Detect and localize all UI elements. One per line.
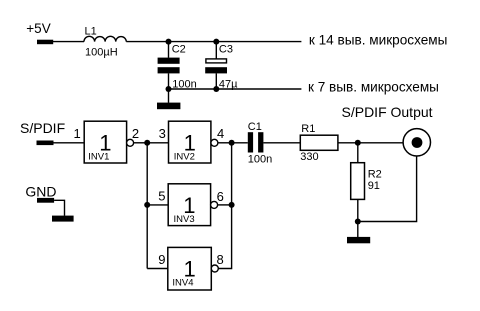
wire C3 top lead (215, 42, 217, 59)
wire left bus (node A down to INV4 in) (146, 143, 148, 269)
svg-text:C1: C1 (248, 121, 262, 133)
svg-text:3: 3 (159, 126, 166, 141)
RCA connector J1 (403, 129, 430, 156)
svg-text:91: 91 (368, 180, 380, 192)
svg-text:100n: 100n (248, 154, 272, 166)
svg-text:к 7 выв. микросхемы: к 7 выв. микросхемы (308, 79, 439, 94)
node rail2 / C3 (213, 86, 219, 92)
svg-text:S/PDIF Output: S/PDIF Output (342, 104, 433, 120)
wire INV4 out to right bus (218, 143, 231, 269)
node D (R2 bottom) (355, 219, 361, 225)
wire INV3 out to right bus (218, 204, 232, 206)
node C2 / rail2 (166, 86, 172, 92)
node C (R1/R2/output) (355, 140, 361, 146)
ground under R2 (347, 237, 370, 243)
wire node B to C1 (232, 142, 248, 144)
svg-text:+5V: +5V (26, 21, 50, 36)
inverter gate INV3 (168, 184, 217, 226)
resistor R1 (300, 123, 338, 163)
wire node A to INV2 in (147, 142, 168, 144)
svg-text:C3: C3 (219, 44, 233, 56)
wire node D to RCA shield (358, 156, 417, 222)
capacitor C1 (248, 121, 272, 166)
svg-text:9: 9 (158, 252, 165, 267)
svg-text:330: 330 (300, 151, 318, 163)
resistor R2 (351, 163, 382, 200)
svg-text:к 14 выв. микросхемы: к 14 выв. микросхемы (309, 32, 448, 47)
capacitor C3 (205, 44, 238, 91)
GND terminal (25, 183, 56, 202)
S/PDIF input terminal (20, 120, 65, 145)
svg-text:S/PDIF: S/PDIF (20, 120, 65, 136)
svg-text:2: 2 (132, 126, 139, 141)
wire C2 bottom lead to ground (168, 73, 170, 102)
svg-text:GND: GND (25, 183, 56, 199)
svg-text:R2: R2 (368, 169, 382, 181)
wire INV2 out to node B (218, 142, 232, 144)
wire to INV4 in (147, 268, 168, 270)
inverter gate INV1 (84, 121, 133, 163)
node top rail / C3 (213, 39, 219, 45)
wire input to INV1 (54, 142, 85, 144)
svg-text:INV1: INV1 (88, 151, 109, 162)
svg-text:C2: C2 (172, 44, 186, 56)
node A (INV1 out) (144, 140, 150, 146)
svg-text:4: 4 (217, 126, 224, 141)
svg-text:6: 6 (217, 189, 224, 204)
node F (right bus / INV3 out) (229, 202, 235, 208)
svg-text:INV2: INV2 (174, 151, 195, 162)
wire C2 top lead (168, 42, 170, 58)
node top rail / C2 (166, 39, 172, 45)
wire +5V to L1 (53, 41, 84, 43)
node E (left bus / INV3 in) (144, 202, 150, 208)
wire INV1 out to node (134, 142, 148, 144)
ground at GND (52, 216, 74, 222)
wire C1 to R1 (263, 142, 300, 144)
svg-text:R1: R1 (301, 123, 315, 135)
wire R2 to ground node (357, 199, 359, 237)
wire second rail (169, 88, 302, 90)
wire GND to ground (54, 200, 64, 216)
inverter gate INV2 (169, 121, 218, 163)
svg-text:L1: L1 (85, 25, 97, 37)
capacitor C2 (158, 44, 197, 91)
svg-text:8: 8 (217, 252, 224, 267)
+5V terminal (26, 21, 53, 44)
svg-text:INV3: INV3 (174, 214, 195, 225)
inductor L1 (84, 25, 126, 58)
wire C3 bottom lead (215, 73, 217, 89)
svg-text:100µH: 100µH (85, 46, 118, 58)
wire R1 to RCA (338, 142, 414, 144)
ground under C2 (157, 103, 180, 110)
svg-text:5: 5 (158, 189, 165, 204)
node B (INV2 out) (229, 140, 235, 146)
wire top rail (126, 41, 301, 43)
inverter gate INV4 (168, 247, 219, 290)
svg-text:INV4: INV4 (172, 278, 193, 289)
wire to INV3 in (147, 204, 168, 206)
wire node C to R2 (357, 143, 359, 163)
svg-text:1: 1 (74, 126, 81, 141)
